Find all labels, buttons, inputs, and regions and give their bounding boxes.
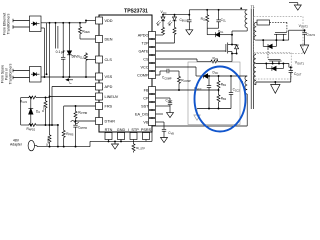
gray box around bias supply	[188, 62, 240, 125]
svg-text:FRS: FRS	[105, 104, 113, 108]
resistor RCS	[156, 52, 233, 64]
wire: output row 2	[256, 63, 289, 65]
wire: EA_DIS stub	[156, 113, 164, 115]
gate drive stub bottom FET	[267, 49, 269, 60]
resistor RUV1	[44, 98, 47, 126]
capacitor CDTHR	[73, 121, 77, 147]
pin COMP	[149, 72, 156, 79]
ground top right	[289, 3, 301, 11]
svg-text:Adapter: Adapter	[10, 143, 23, 147]
diode DCL	[216, 32, 233, 37]
dashed gate drive line	[270, 22, 287, 32]
transformer core	[251, 9, 253, 110]
wire: BR2 positive up	[46, 23, 48, 74]
svg-text:CSST: CSST	[166, 99, 174, 104]
48V adapter plug	[28, 140, 90, 150]
wire: PSRS to bias return	[146, 126, 247, 141]
wire: VCC pin to DCC	[156, 67, 204, 76]
rect diode bottom	[266, 64, 283, 71]
capacitor 0.1uF	[61, 23, 65, 77]
wire: bias winding bottom return	[246, 94, 248, 126]
wire: winding2 return + ground	[256, 82, 291, 93]
pin PSRS	[143, 133, 150, 140]
wire: inputs to BR2	[13, 69, 30, 79]
svg-text:PSRS: PSRS	[141, 128, 152, 132]
sync FET bottom	[268, 59, 282, 63]
diode DCC	[204, 74, 248, 79]
pin GND	[118, 133, 125, 140]
transistor Q1 main switch	[156, 43, 239, 54]
pin VCC	[149, 64, 156, 71]
svg-text:DEN: DEN	[105, 37, 113, 41]
wire: VSS rail	[41, 76, 96, 78]
wire: bias winding top	[241, 81, 243, 83]
wire: rail jog to RTN level	[90, 141, 152, 146]
svg-text:RFRS: RFRS	[66, 132, 73, 137]
pin VSS	[96, 73, 103, 80]
wire: secondary output row	[256, 39, 289, 41]
svg-text:RTN: RTN	[105, 128, 113, 132]
svg-text:APDO: APDO	[138, 33, 149, 37]
pin DEN	[96, 36, 103, 43]
wire: FRS line	[64, 105, 96, 107]
current arrow I_in	[66, 79, 73, 81]
wire: primary rail	[189, 9, 247, 11]
capacitor CCOMP	[156, 69, 180, 76]
sync FET top	[274, 32, 287, 40]
wire: primary to drain	[232, 28, 247, 45]
svg-text:VSS: VSS	[105, 75, 113, 79]
resistor RDTHR	[74, 106, 77, 121]
capacitor CVCC	[207, 76, 211, 109]
svg-text:DA: DA	[36, 110, 40, 115]
svg-text:VDD: VDD	[105, 19, 113, 23]
svg-text:VOUT2: VOUT2	[299, 24, 309, 29]
wire: clamp bottom	[207, 28, 218, 35]
svg-text:FB: FB	[144, 88, 149, 92]
wire: FB to divider	[156, 89, 219, 91]
zener diode 58V	[67, 23, 72, 77]
pin RTN	[105, 133, 112, 140]
pin APDO	[149, 32, 156, 39]
resistor RFRS	[62, 106, 65, 147]
wire: bias ground rail	[197, 108, 231, 110]
secondary winding 1	[254, 22, 256, 40]
svg-text:SST: SST	[141, 104, 149, 108]
pin LINEUV	[96, 93, 103, 100]
wire: RTN GND stems to ground rail	[109, 140, 122, 142]
resistor RAPD2	[21, 124, 58, 127]
svg-text:CS: CS	[143, 57, 149, 61]
pin SST	[149, 103, 156, 110]
capacitor COUT1	[289, 67, 293, 82]
pin CP	[149, 95, 156, 102]
wire: inputs to BR1	[13, 19, 30, 29]
svg-text:RB2: RB2	[221, 97, 227, 102]
wire: short stub verticals	[55, 23, 57, 49]
svg-text:T2P: T2P	[142, 41, 149, 45]
svg-text:0.1 µF: 0.1 µF	[56, 50, 66, 54]
resistor RCOMP	[178, 76, 181, 91]
bridge rectifier BR1 (from Ethernet transformers)	[30, 16, 42, 32]
svg-text:GATE: GATE	[138, 49, 149, 53]
svg-text:T1: T1	[251, 5, 255, 9]
svg-text:I_STP: I_STP	[128, 128, 139, 132]
svg-text:RUV2: RUV2	[20, 100, 28, 105]
wire: left divider vertical	[20, 98, 22, 126]
svg-text:RCOMP: RCOMP	[181, 79, 191, 84]
resistor RSTP	[132, 140, 135, 153]
capacitor CCL	[216, 10, 220, 28]
snubber resistor box	[256, 20, 269, 25]
wire: divider to rail	[57, 125, 59, 147]
capacitor CCC2	[229, 76, 233, 109]
resistor RUV2	[21, 96, 50, 99]
pin FB	[149, 87, 156, 94]
pin I_STP	[130, 133, 137, 140]
svg-text:VCC: VCC	[140, 65, 148, 69]
capacitor CVB	[156, 122, 168, 143]
svg-text:TPS23731: TPS23731	[124, 9, 148, 15]
bridge rectifier BR2 (from spare pairs)	[30, 67, 42, 83]
highlight ellipse	[195, 67, 246, 132]
pin APD	[96, 83, 103, 90]
node dots on bottom rail	[49, 146, 77, 148]
resistor RCL	[206, 10, 209, 28]
wire: DTHR line	[76, 120, 96, 122]
wire: APD line	[52, 87, 96, 126]
node dots on VSS rail	[43, 76, 87, 78]
wire: to VOUT2	[289, 30, 305, 40]
capacitor CSST	[156, 98, 174, 118]
svg-text:APD: APD	[105, 85, 113, 89]
wire: CP stub	[156, 97, 171, 99]
svg-text:CP: CP	[143, 96, 149, 100]
LED1 + resistor to APDO	[156, 15, 166, 35]
svg-text:RB1: RB1	[221, 83, 227, 88]
pin CLS	[96, 56, 103, 63]
resistor RAPD1	[48, 134, 51, 147]
svg-text:VB: VB	[143, 120, 149, 124]
pin EA_DIS	[149, 111, 156, 118]
wire: VCC rail	[163, 14, 189, 16]
transformer bias winding	[245, 76, 247, 94]
pin DTHR	[96, 118, 103, 125]
resistor RDEN	[79, 23, 96, 39]
capacitor CBULK	[186, 10, 193, 35]
wire: BR1 negative down	[43, 28, 45, 77]
pin VDD	[96, 17, 103, 24]
node dots on VDD rail	[49, 20, 87, 24]
svg-text:RCL: RCL	[201, 17, 207, 22]
rect diode top	[263, 40, 276, 49]
dashed box sync rect top	[254, 17, 303, 54]
pin FRS	[96, 103, 103, 110]
gray ground arrow	[194, 109, 200, 121]
svg-text:COMP: COMP	[137, 73, 149, 77]
secondary winding 2	[254, 55, 256, 85]
svg-text:Transformers: Transformers	[7, 13, 11, 34]
dashed box sync rect bottom	[254, 53, 292, 80]
resistor RB1	[217, 76, 220, 92]
op-amp/controller U1 TPS23731 body	[99, 15, 152, 132]
wire: LINEUV sense line	[49, 23, 51, 134]
pin CS	[149, 56, 156, 63]
sine wave icon	[71, 120, 79, 123]
svg-text:LINEUV: LINEUV	[105, 95, 119, 99]
svg-text:RDEN: RDEN	[82, 30, 90, 35]
wire: LINEUV line	[50, 96, 96, 98]
svg-text:EA_DIS: EA_DIS	[135, 112, 149, 116]
ground symbol below GND	[112, 141, 119, 149]
svg-text:DTHR: DTHR	[105, 119, 116, 123]
resistor RCLS	[85, 53, 96, 78]
svg-text:CLS: CLS	[105, 58, 113, 62]
LED2 + resistor to T2P	[156, 15, 177, 43]
svg-text:Transformers: Transformers	[9, 63, 13, 84]
wire: top VDD rail	[41, 21, 96, 23]
capacitor COUT2	[300, 30, 308, 54]
wire: to VOUT1	[289, 64, 293, 68]
pin T2P	[149, 40, 156, 47]
svg-text:GND: GND	[117, 128, 126, 132]
diode DA	[28, 98, 33, 126]
pin VB	[149, 119, 156, 126]
resistor RB2	[217, 90, 220, 109]
pin GATE	[149, 48, 156, 55]
